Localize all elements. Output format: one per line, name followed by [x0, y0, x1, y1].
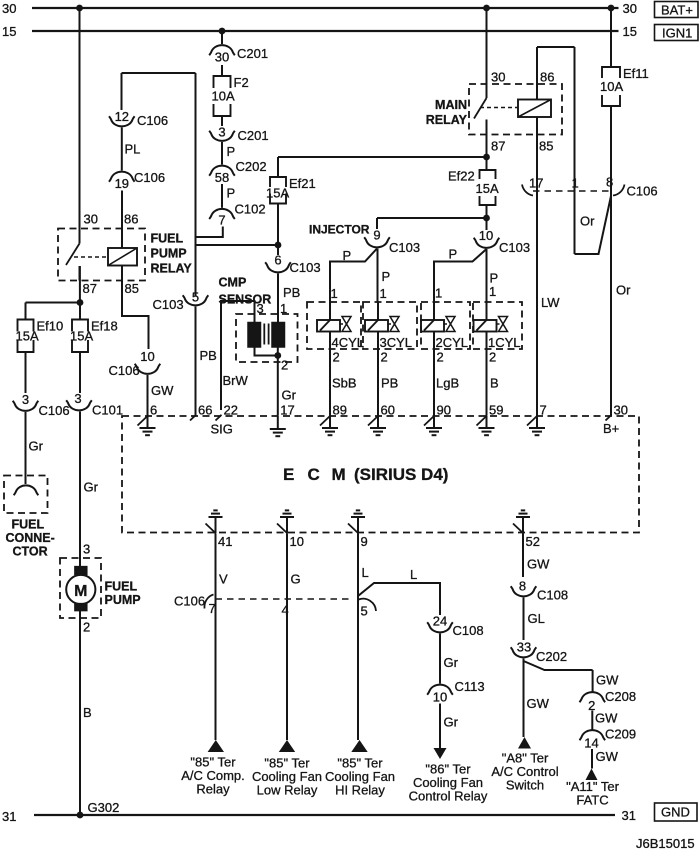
svg-text:1CYL: 1CYL — [488, 335, 521, 350]
svg-text:2: 2 — [381, 350, 388, 365]
svg-text:31: 31 — [2, 809, 16, 824]
svg-text:Ef10: Ef10 — [37, 319, 64, 334]
svg-text:C108: C108 — [453, 623, 484, 638]
svg-text:Ef11: Ef11 — [623, 66, 649, 81]
svg-text:E: E — [283, 465, 294, 484]
svg-text:2: 2 — [437, 350, 444, 365]
svg-text:10: 10 — [433, 690, 447, 705]
svg-text:C202: C202 — [536, 649, 567, 664]
svg-text:3: 3 — [74, 391, 81, 406]
svg-text:2: 2 — [333, 350, 340, 365]
svg-text:PB: PB — [381, 376, 398, 391]
svg-text:24: 24 — [433, 614, 447, 629]
svg-text:7: 7 — [540, 403, 547, 418]
svg-text:RELAY: RELAY — [426, 113, 468, 127]
svg-text:G: G — [291, 572, 301, 587]
svg-text:PL: PL — [125, 142, 141, 157]
svg-text:10A: 10A — [600, 79, 623, 94]
svg-text:30: 30 — [614, 403, 628, 418]
svg-text:IGN1: IGN1 — [662, 26, 692, 41]
svg-text:1: 1 — [331, 286, 338, 301]
svg-text:GL: GL — [528, 611, 545, 626]
svg-text:41: 41 — [218, 534, 232, 549]
svg-text:FUEL: FUEL — [105, 580, 138, 594]
svg-text:58: 58 — [215, 170, 229, 185]
svg-text:CMP: CMP — [219, 276, 247, 290]
svg-text:P: P — [382, 269, 391, 284]
svg-text:GW: GW — [527, 557, 550, 572]
svg-text:Low Relay: Low Relay — [257, 782, 318, 797]
svg-text:B: B — [490, 376, 499, 391]
svg-text:85: 85 — [539, 139, 553, 154]
svg-text:2: 2 — [83, 620, 90, 635]
svg-text:3: 3 — [22, 392, 29, 407]
svg-text:10A: 10A — [212, 89, 235, 104]
svg-text:FATC: FATC — [576, 792, 608, 807]
svg-text:15A: 15A — [16, 328, 39, 343]
svg-text:P: P — [227, 144, 236, 159]
svg-text:52: 52 — [526, 534, 540, 549]
svg-text:C108: C108 — [537, 588, 568, 603]
svg-text:HI Relay: HI Relay — [335, 782, 385, 797]
svg-text:C106: C106 — [627, 184, 658, 199]
svg-text:Gr: Gr — [282, 388, 297, 403]
svg-text:3: 3 — [83, 542, 90, 557]
svg-text:1: 1 — [572, 176, 579, 191]
svg-text:RELAY: RELAY — [151, 262, 193, 276]
svg-text:PUMP: PUMP — [105, 593, 141, 607]
svg-text:C106: C106 — [174, 594, 205, 609]
svg-text:C106: C106 — [39, 403, 70, 418]
svg-text:90: 90 — [437, 403, 451, 418]
svg-text:PB: PB — [283, 285, 300, 300]
svg-text:22: 22 — [224, 403, 238, 418]
svg-text:C202: C202 — [236, 159, 267, 174]
svg-text:59: 59 — [489, 403, 503, 418]
svg-text:2: 2 — [281, 358, 288, 373]
svg-text:6: 6 — [150, 403, 157, 418]
svg-text:G302: G302 — [88, 800, 120, 815]
svg-text:GND: GND — [661, 805, 690, 820]
svg-text:M: M — [332, 465, 346, 484]
svg-text:C101: C101 — [92, 403, 123, 418]
svg-text:BrW: BrW — [223, 373, 249, 388]
svg-text:GW: GW — [595, 711, 618, 726]
svg-text:PUMP: PUMP — [151, 247, 187, 261]
svg-text:8: 8 — [519, 579, 526, 594]
svg-text:66: 66 — [198, 403, 212, 418]
svg-text:P: P — [343, 248, 352, 263]
svg-text:GW: GW — [596, 749, 619, 764]
svg-text:C208: C208 — [605, 689, 636, 704]
svg-text:C103: C103 — [290, 260, 321, 275]
svg-text:Ef22: Ef22 — [448, 169, 475, 184]
svg-text:Or: Or — [580, 214, 595, 229]
svg-text:B+: B+ — [603, 421, 619, 436]
svg-text:8: 8 — [606, 175, 613, 190]
svg-text:P: P — [227, 186, 236, 201]
svg-text:GW: GW — [151, 383, 174, 398]
svg-text:Gr: Gr — [29, 439, 44, 454]
svg-text:C106: C106 — [109, 363, 140, 378]
svg-text:C: C — [308, 465, 320, 484]
svg-text:4CYL: 4CYL — [332, 335, 365, 350]
svg-text:10: 10 — [290, 534, 304, 549]
svg-text:7: 7 — [218, 213, 225, 228]
svg-text:J6B15015: J6B15015 — [636, 836, 695, 851]
svg-text:LW: LW — [541, 295, 560, 310]
svg-text:GW: GW — [527, 696, 550, 711]
svg-text:30: 30 — [215, 50, 229, 65]
svg-text:M: M — [74, 583, 87, 600]
svg-text:30: 30 — [491, 70, 505, 85]
svg-text:V: V — [219, 572, 228, 587]
svg-text:1: 1 — [489, 284, 496, 299]
svg-text:15: 15 — [2, 24, 16, 39]
svg-text:Switch: Switch — [506, 777, 544, 792]
svg-text:12: 12 — [115, 109, 129, 124]
svg-text:30: 30 — [623, 1, 637, 16]
svg-text:9: 9 — [373, 228, 380, 243]
svg-text:60: 60 — [381, 403, 395, 418]
svg-text:17: 17 — [529, 176, 543, 191]
svg-text:C201: C201 — [238, 128, 269, 143]
svg-text:INJECTOR: INJECTOR — [309, 223, 370, 237]
svg-text:Ef21: Ef21 — [289, 176, 316, 191]
svg-text:5: 5 — [192, 290, 199, 305]
svg-text:CTOR: CTOR — [13, 545, 48, 559]
svg-text:B: B — [83, 705, 92, 720]
svg-text:C201: C201 — [237, 46, 268, 61]
svg-text:2CYL: 2CYL — [436, 335, 469, 350]
svg-text:FUEL: FUEL — [12, 518, 45, 532]
svg-text:PB: PB — [200, 348, 217, 363]
svg-text:Control Relay: Control Relay — [409, 788, 488, 803]
svg-text:Gr: Gr — [444, 655, 459, 670]
svg-text:(SIRIUS D4): (SIRIUS D4) — [354, 465, 448, 484]
svg-text:CONNE-: CONNE- — [6, 531, 55, 545]
svg-text:C103: C103 — [389, 240, 420, 255]
svg-text:15A: 15A — [476, 181, 499, 196]
svg-text:10: 10 — [140, 349, 154, 364]
svg-text:Ef18: Ef18 — [91, 319, 118, 334]
svg-text:30: 30 — [2, 1, 16, 16]
svg-text:19: 19 — [115, 176, 129, 191]
svg-text:10: 10 — [479, 228, 493, 243]
svg-text:SbB: SbB — [332, 376, 357, 391]
svg-text:2: 2 — [489, 350, 496, 365]
svg-text:85: 85 — [125, 281, 139, 296]
svg-text:Or: Or — [616, 283, 631, 298]
svg-text:89: 89 — [333, 403, 347, 418]
svg-text:31: 31 — [622, 808, 636, 823]
svg-text:86: 86 — [540, 70, 554, 85]
svg-text:GW: GW — [596, 673, 619, 688]
svg-text:C106: C106 — [137, 113, 168, 128]
svg-text:33: 33 — [517, 640, 531, 655]
svg-text:15A: 15A — [70, 328, 93, 343]
svg-text:1: 1 — [380, 286, 387, 301]
svg-text:BAT+: BAT+ — [661, 3, 693, 18]
svg-text:17: 17 — [280, 403, 294, 418]
svg-text:9: 9 — [361, 534, 368, 549]
svg-text:5: 5 — [361, 604, 368, 619]
svg-text:C102: C102 — [235, 202, 266, 217]
svg-text:87: 87 — [491, 139, 505, 154]
svg-text:87: 87 — [83, 281, 97, 296]
svg-text:L: L — [410, 567, 417, 582]
svg-text:L: L — [362, 565, 369, 580]
svg-text:SIG: SIG — [211, 422, 233, 437]
svg-text:C113: C113 — [455, 679, 485, 694]
svg-text:LgB: LgB — [436, 376, 459, 391]
svg-text:1: 1 — [435, 286, 442, 301]
svg-text:3: 3 — [218, 125, 225, 140]
svg-text:P: P — [449, 247, 458, 262]
svg-text:Gr: Gr — [444, 715, 459, 730]
svg-text:30: 30 — [84, 212, 98, 227]
svg-text:C209: C209 — [605, 727, 636, 742]
svg-text:6: 6 — [274, 253, 281, 268]
svg-text:15A: 15A — [266, 186, 289, 201]
svg-text:C103: C103 — [499, 240, 530, 255]
svg-text:86: 86 — [124, 212, 138, 227]
svg-text:Relay: Relay — [196, 781, 230, 796]
svg-text:Gr: Gr — [84, 480, 99, 495]
svg-text:3CYL: 3CYL — [380, 335, 413, 350]
svg-text:F2: F2 — [234, 75, 249, 90]
svg-text:FUEL: FUEL — [151, 232, 184, 246]
svg-text:C106: C106 — [134, 170, 165, 185]
svg-text:15: 15 — [623, 24, 637, 39]
svg-text:C103: C103 — [153, 297, 184, 312]
svg-text:MAIN: MAIN — [435, 98, 467, 112]
